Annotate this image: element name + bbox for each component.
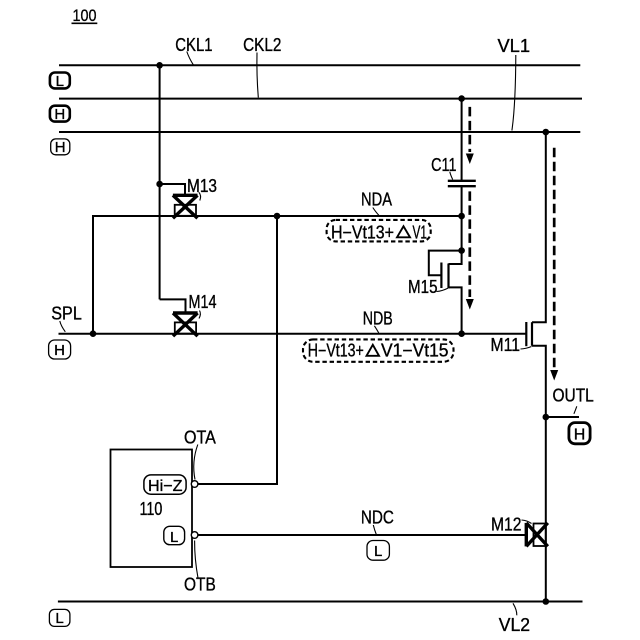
svg-text:NDB: NDB [363, 308, 393, 328]
svg-text:H: H [55, 139, 66, 156]
svg-text:L: L [55, 610, 63, 627]
svg-text:M13: M13 [187, 176, 217, 196]
svg-text:M12: M12 [491, 515, 522, 535]
svg-text:H: H [54, 106, 65, 123]
svg-text:L: L [170, 529, 178, 546]
svg-text:CKL1: CKL1 [175, 35, 212, 55]
svg-text:M14: M14 [189, 292, 217, 312]
svg-text:OTA: OTA [184, 428, 216, 448]
svg-text:100: 100 [73, 6, 97, 25]
svg-text:NDA: NDA [361, 189, 392, 209]
svg-text:V1−Vt15: V1−Vt15 [381, 341, 449, 361]
svg-text:M15: M15 [408, 277, 438, 297]
svg-text:M11: M11 [491, 335, 521, 355]
svg-text:OUTL: OUTL [553, 385, 594, 405]
svg-text:110: 110 [140, 499, 163, 519]
svg-text:CKL2: CKL2 [243, 35, 281, 55]
svg-text:OTB: OTB [184, 575, 216, 595]
svg-text:VL2: VL2 [499, 615, 530, 635]
svg-text:Hi−Z: Hi−Z [148, 478, 183, 495]
svg-text:H: H [54, 342, 65, 359]
svg-text:H−Vt13+: H−Vt13+ [308, 341, 364, 361]
svg-text:VL1: VL1 [498, 36, 531, 56]
svg-text:NDC: NDC [361, 508, 394, 528]
svg-text:V1: V1 [413, 222, 428, 242]
svg-text:SPL: SPL [51, 304, 81, 324]
svg-text:H−Vt13+: H−Vt13+ [331, 222, 394, 242]
svg-text:C11: C11 [431, 155, 456, 175]
svg-text:L: L [56, 73, 64, 90]
svg-text:H: H [574, 427, 586, 444]
svg-text:L: L [374, 543, 382, 560]
